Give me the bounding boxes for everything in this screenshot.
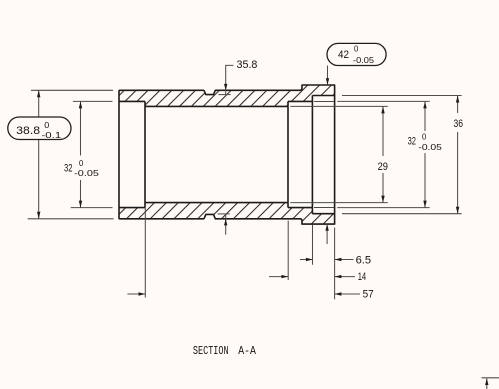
svg-text:A-A: A-A [238, 345, 256, 358]
svg-text:29: 29 [378, 161, 388, 173]
svg-text:38.8: 38.8 [16, 125, 40, 137]
svg-text:0: 0 [354, 44, 359, 54]
svg-text:-0.05: -0.05 [74, 168, 99, 178]
svg-text:0: 0 [422, 132, 427, 142]
svg-text:0: 0 [44, 120, 49, 130]
svg-text:-0.05: -0.05 [418, 142, 442, 152]
svg-text:14: 14 [358, 271, 367, 283]
svg-text:42: 42 [338, 49, 349, 61]
svg-text:6.5: 6.5 [356, 254, 372, 266]
svg-text:57: 57 [363, 289, 374, 301]
svg-text:-0.05: -0.05 [353, 55, 374, 65]
svg-text:32: 32 [408, 135, 416, 147]
svg-text:SECTION: SECTION [193, 345, 229, 358]
svg-text:-0.1: -0.1 [42, 130, 62, 140]
svg-text:35.8: 35.8 [237, 59, 258, 71]
svg-text:36: 36 [454, 118, 464, 130]
svg-text:0: 0 [79, 158, 84, 168]
svg-text:32: 32 [64, 163, 73, 175]
